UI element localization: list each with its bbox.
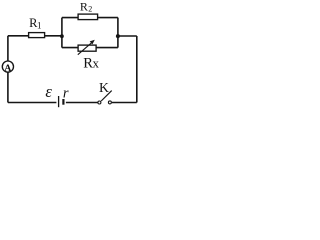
ammeter A bbox=[2, 61, 13, 72]
node A (junction dot, left) bbox=[60, 34, 64, 38]
wire: node B to right rail bbox=[118, 35, 137, 37]
wire: switch to right rail bbox=[112, 102, 137, 104]
svg-text:A: A bbox=[4, 63, 12, 74]
wire: bottom branch through Rx bbox=[62, 47, 118, 49]
svg-text:r: r bbox=[63, 85, 69, 101]
wire: parallel-block right vertical bbox=[117, 18, 119, 48]
battery cell: short thick plate (-) bbox=[62, 99, 64, 105]
switch K: left contact bbox=[98, 101, 101, 104]
svg-text:K: K bbox=[99, 80, 109, 95]
rheostat Rx box bbox=[78, 45, 96, 51]
svg-text:ε: ε bbox=[45, 82, 52, 101]
rheostat Rx arrow bbox=[78, 40, 95, 55]
resistor R1 bbox=[29, 33, 45, 38]
svg-text:2: 2 bbox=[88, 4, 92, 13]
wire: battery to switch bbox=[66, 102, 98, 104]
switch K: blade bbox=[101, 91, 112, 101]
resistor R2 bbox=[78, 14, 98, 20]
svg-text:x: x bbox=[93, 56, 100, 71]
wire: left rail vertical (through ammeter) bbox=[7, 36, 9, 103]
wire: top-left horizontal from left rail to R1 bbox=[8, 35, 29, 37]
wire: top branch through R2 bbox=[62, 17, 118, 19]
switch K: right contact bbox=[108, 101, 111, 104]
wire: R1 to node A bbox=[45, 35, 62, 37]
battery cell: long plate (+) bbox=[58, 96, 60, 107]
node B (junction dot, right) bbox=[116, 34, 120, 38]
wire: bottom rail left of battery bbox=[8, 102, 57, 104]
svg-text:R: R bbox=[80, 0, 88, 13]
wire: parallel-block left vertical bbox=[61, 18, 63, 48]
wire: right rail vertical bbox=[136, 36, 138, 103]
svg-text:1: 1 bbox=[37, 20, 42, 30]
